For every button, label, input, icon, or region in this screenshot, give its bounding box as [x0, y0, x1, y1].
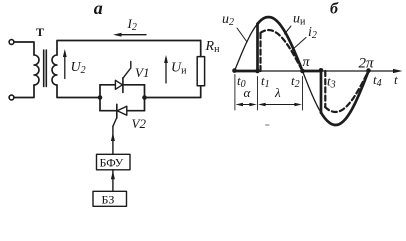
- thick uи zero segment t0..t1: [235, 70, 258, 73]
- dashed i2 negative lobe: [325, 71, 369, 112]
- svg-text:БФУ: БФУ: [100, 156, 124, 170]
- thyristor V1 (triangle + cathode bar + gate): [115, 80, 122, 89]
- thin sine u2: [235, 17, 369, 125]
- thick uи zero segment t2..t3: [303, 70, 322, 73]
- node t3 dot: [319, 68, 324, 73]
- stray scan mark: [266, 124, 270, 126]
- wire: secondary top to top rail: [57, 41, 201, 56]
- svg-text:u2: u2: [222, 12, 234, 28]
- svg-text:uи: uи: [293, 12, 306, 28]
- svg-text:i2: i2: [308, 25, 317, 41]
- dimension arrow alpha: [240, 104, 252, 106]
- transformer core: [44, 50, 47, 87]
- wire: primary winding bottom to bottom terminal: [14, 85, 34, 98]
- dashed i2 positive lobe: [261, 30, 303, 71]
- resistor Rн: [197, 57, 204, 86]
- thyristor V2 (triangle + cathode bar + gate): [117, 106, 127, 115]
- dashed i2 rising edge at t1: [259, 33, 261, 71]
- svg-text:t4: t4: [373, 72, 382, 89]
- svg-text:λ: λ: [274, 85, 281, 100]
- control wire БФУ to V2 gate (arrow up): [112, 126, 114, 154]
- wire: right side down to load resistor: [200, 41, 202, 57]
- node left (junction dot): [98, 95, 103, 100]
- thick uи falling edge at t3: [320, 71, 323, 113]
- wire: secondary bottom to left node: [57, 85, 100, 98]
- svg-text:V1: V1: [135, 65, 149, 80]
- node t1 dot: [255, 69, 260, 74]
- block БФУ: [97, 154, 131, 170]
- transformer T primary winding: [34, 55, 39, 85]
- svg-text:t1: t1: [261, 73, 270, 90]
- svg-text:V2: V2: [132, 116, 147, 131]
- svg-text:Rн: Rн: [205, 39, 221, 55]
- wire БЗ to БФУ (arrow up): [112, 170, 114, 192]
- terminal top-left: [9, 40, 14, 45]
- extension line at t1: [257, 77, 259, 111]
- extension line at t2: [302, 77, 304, 111]
- svg-text:2π: 2π: [359, 56, 375, 72]
- arrow I2 (current direction, pointing left): [118, 34, 146, 36]
- time axis t: [233, 70, 399, 72]
- thyristor block left vertical: [99, 85, 101, 111]
- wire bottom branch: [100, 110, 145, 112]
- thick uи negative lobe: [321, 71, 369, 125]
- node right (junction dot): [142, 95, 147, 100]
- svg-text:Uи: Uи: [171, 61, 187, 77]
- svg-text:t3: t3: [327, 74, 336, 91]
- svg-text:БЗ: БЗ: [102, 193, 115, 207]
- block БЗ: [93, 191, 127, 206]
- arrow Uи: [165, 58, 167, 83]
- dimension arrow lambda: [262, 104, 297, 106]
- thick uи positive lobe: [258, 17, 303, 71]
- node t2 dot: [300, 69, 305, 74]
- thick uи rising edge at t1: [256, 24, 259, 71]
- wire: top terminal to primary winding: [14, 42, 34, 55]
- arrow U2: [64, 52, 66, 79]
- transformer T secondary winding: [52, 55, 57, 85]
- svg-text:t0: t0: [237, 73, 246, 90]
- svg-text:t2: t2: [291, 73, 300, 90]
- wire top branch: [100, 84, 145, 86]
- svg-text:Т: Т: [36, 25, 44, 39]
- svg-text:π: π: [303, 55, 311, 70]
- node t4 (2pi) dot: [366, 68, 371, 73]
- svg-text:t: t: [394, 72, 398, 87]
- wire: resistor bottom to right node: [145, 86, 201, 98]
- extension line at t0: [234, 75, 236, 111]
- thyristor block right vertical: [144, 85, 146, 111]
- svg-text:I2: I2: [127, 16, 137, 33]
- svg-text:а: а: [94, 0, 103, 18]
- terminal bottom-left: [9, 95, 14, 100]
- svg-text:U2: U2: [71, 60, 86, 76]
- svg-text:б: б: [330, 1, 339, 18]
- node t0 dot: [232, 68, 237, 73]
- dashed i2 falling edge at t3: [324, 71, 326, 107]
